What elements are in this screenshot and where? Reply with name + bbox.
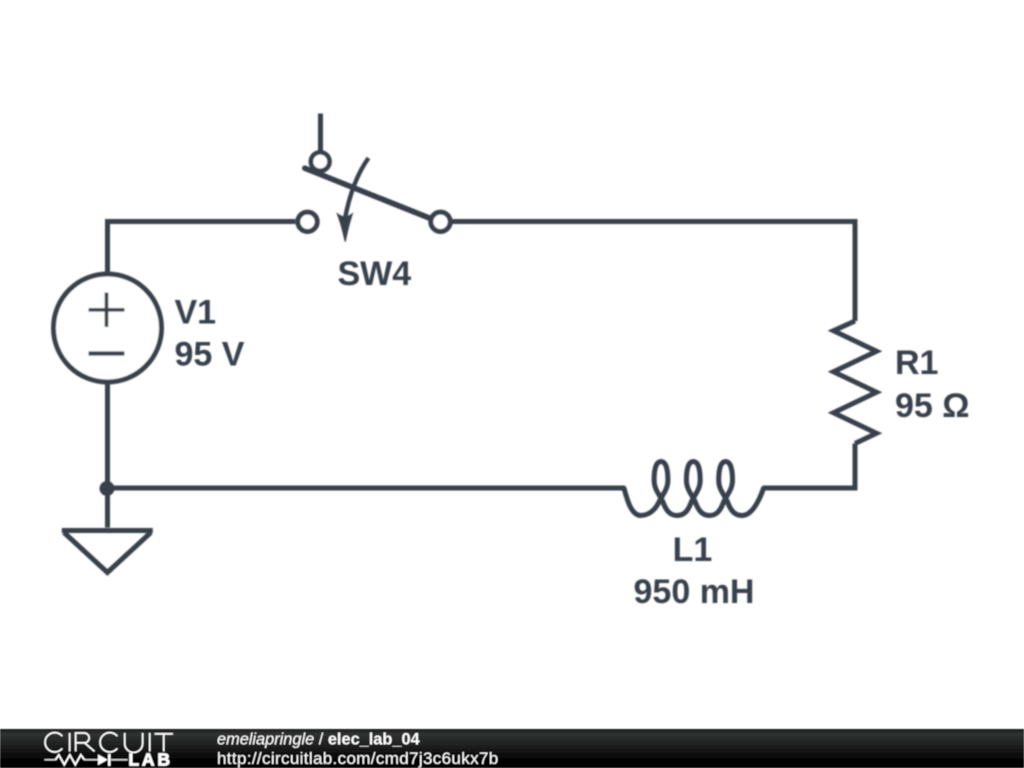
resistor R1 [834, 321, 877, 444]
svg-text:R1: R1 [895, 344, 938, 382]
switch SW4 [298, 114, 450, 242]
inductor L1 [624, 462, 764, 516]
V1 plus sign [89, 293, 125, 328]
svg-text:95 Ω: 95 Ω [895, 387, 970, 425]
wire V1 bottom to ground node [105, 382, 110, 528]
wire top-right: switch right terminal to top-right corner down to resistor [453, 222, 856, 322]
svg-text:SW4: SW4 [338, 255, 412, 293]
switch right terminal circle [431, 212, 450, 231]
V1 circle body [54, 274, 162, 382]
wire bottom-right: inductor to resistor bottom [763, 444, 855, 489]
wire top-left: V1 top to switch left terminal [108, 222, 296, 275]
ground [62, 531, 153, 573]
switch motion arrow shaft [345, 158, 369, 219]
switch top stub wire [318, 114, 323, 153]
switch lever [305, 168, 431, 218]
footer bar [0, 729, 1024, 768]
switch left terminal circle [298, 212, 317, 231]
voltage source V1 [54, 274, 162, 382]
svg-text:950 mH: 950 mH [634, 573, 755, 611]
wire bottom: node to inductor [108, 486, 626, 491]
CircuitLab logo text CIRCUIT (custom thin strokes) [45, 733, 173, 753]
node junction dot [100, 481, 115, 496]
svg-text:LAB: LAB [128, 749, 172, 768]
svg-text:V1: V1 [175, 294, 217, 332]
logo resistor-diode glyph [45, 754, 128, 766]
switch motion arrow head [338, 214, 353, 242]
svg-text:L1: L1 [673, 531, 713, 569]
svg-text:emeliapringle / elec_lab_04: emeliapringle / elec_lab_04 [217, 731, 420, 749]
svg-text:95 V: 95 V [175, 336, 245, 374]
switch top terminal circle [311, 152, 330, 171]
svg-text:http://circuitlab.com/cmd7j3c6: http://circuitlab.com/cmd7j3c6ukx7b [217, 749, 499, 768]
V1 minus sign [89, 351, 125, 355]
